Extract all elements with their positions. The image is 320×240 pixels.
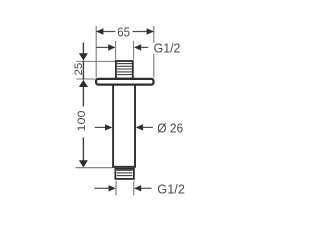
- svg-text:100: 100: [76, 111, 88, 132]
- dimension diameter 26 left arrowhead: [105, 124, 112, 130]
- extension line flange-top level going left: [77, 78, 96, 80]
- dimension 65 arrowhead left: [96, 28, 103, 34]
- pipe bottom edge: [112, 166, 136, 168]
- extension line pipe-bottom level going left: [76, 167, 113, 169]
- bottom thread hatch line 3: [117, 175, 133, 177]
- svg-text:G1/2: G1/2: [154, 41, 181, 56]
- dimension G1/2 bottom left arrowhead: [109, 185, 116, 191]
- top nipple hatch line 1: [117, 63, 133, 65]
- pipe left wall: [112, 84, 114, 168]
- extension line below bottom thread right: [133, 181, 135, 196]
- dimension G1/2 top right arrowhead: [134, 44, 141, 50]
- extension line thread-top level going left: [77, 60, 116, 62]
- dimension diameter 26 right tail: [143, 126, 153, 128]
- dimension 65 line left segment: [96, 31, 115, 33]
- svg-text:65: 65: [117, 25, 130, 39]
- dimension diameter 26 left tail: [95, 126, 106, 128]
- dimension 25 top arrow shaft: [82, 43, 84, 55]
- dimension G1/2 top left arrow shaft: [96, 46, 109, 48]
- extension line left of 65 dim: [95, 26, 97, 78]
- top nipple hatch line 3: [117, 68, 133, 70]
- top nipple hatch line 2: [117, 65, 133, 67]
- extension line below bottom thread left: [115, 181, 117, 196]
- dimension 25 line between extension lines: [82, 61, 84, 80]
- dimension diameter 26 right arrowhead: [136, 124, 143, 130]
- dimension 25 arrowhead pointing down: [79, 53, 88, 60]
- ceiling flange plate: [96, 79, 153, 85]
- svg-text:Ø 26: Ø 26: [157, 120, 183, 135]
- dimension G1/2 top left arrowhead: [108, 44, 115, 50]
- extension line above top thread right: [133, 41, 135, 60]
- dimension G1/2 top right arrow shaft: [141, 46, 148, 48]
- bottom thread hatch line 2: [117, 172, 133, 174]
- svg-text:25: 25: [73, 63, 85, 76]
- dimension G1/2 bottom right arrowhead: [134, 185, 141, 191]
- dimension G1/2 bottom right tail: [141, 187, 152, 189]
- top nipple hatch line 5: [117, 74, 133, 76]
- top nipple hatch line 4: [117, 71, 133, 73]
- bottom thread hatch line 1: [117, 169, 133, 171]
- dimension 65 line right segment: [133, 31, 154, 33]
- dimension 100 lower shaft: [82, 138, 84, 161]
- extension line right of 65 dim: [153, 26, 155, 78]
- dimension 65 arrowhead right: [147, 28, 154, 34]
- white mask behind top G1/2 label: [151, 43, 164, 55]
- extension line above top thread left: [115, 41, 117, 60]
- dimension 100/25 shared arrowhead pointing up: [79, 80, 88, 87]
- dimension 100 upper shaft: [82, 87, 84, 107]
- top threaded nipple body: [116, 61, 133, 79]
- bottom threaded connector body: [115, 169, 133, 179]
- dimension G1/2 bottom left tail: [94, 187, 109, 189]
- pipe right wall: [134, 84, 136, 168]
- svg-text:G1/2: G1/2: [157, 182, 185, 197]
- dimension 100 arrowhead pointing down: [79, 160, 88, 167]
